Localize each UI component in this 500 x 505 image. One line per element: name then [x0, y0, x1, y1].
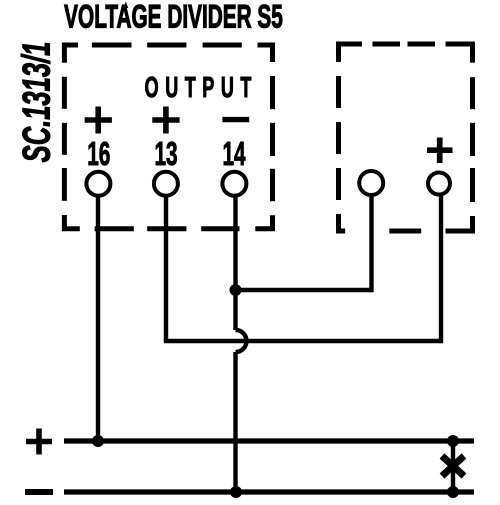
wire external terminal B down — [439, 196, 443, 343]
terminal 14 circle — [222, 172, 246, 196]
external device dashed outline — [339, 44, 473, 231]
svg-text:16: 16 — [87, 135, 110, 172]
svg-text:13: 13 — [154, 135, 177, 172]
polarity + of external device — [427, 138, 453, 164]
wire terminal 13 down — [164, 196, 168, 341]
+ bus — [64, 438, 474, 443]
wire external terminal A down — [369, 196, 373, 292]
terminal 16 circle — [86, 172, 110, 196]
junction dot 16 on + bus — [92, 435, 104, 447]
wire terminal 14 down to node — [233, 196, 237, 330]
apex mark over A of VOLTAGE — [123, 2, 128, 9]
external terminal A circle — [359, 171, 383, 195]
wire terminal 16 to + bus — [96, 196, 100, 441]
svg-text:OUTPUT: OUTPUT — [145, 72, 258, 104]
polarity + of terminal 13 — [152, 107, 179, 134]
wire 13 to external terminal B horizontal — [164, 339, 441, 343]
wire hop over 13-B wire — [236, 330, 247, 352]
terminal 13 circle — [154, 172, 178, 196]
junction dot 14 on - bus — [230, 486, 242, 498]
junction dot link on + bus — [447, 435, 459, 447]
svg-text:VOLTAGE DIVIDER S5: VOLTAGE DIVIDER S5 — [64, 0, 283, 35]
svg-text:14: 14 — [222, 135, 246, 172]
- bus — [64, 489, 474, 494]
terminal block S5 dashed outline — [64, 45, 272, 229]
X mark on removable link — [442, 456, 464, 476]
label + of + bus — [26, 429, 52, 455]
removable link between buses — [451, 441, 455, 492]
junction dot node 14 branch — [230, 284, 242, 296]
external terminal B circle — [428, 173, 450, 195]
polarity - of terminal 14 — [222, 117, 249, 122]
polarity + of terminal 16 — [85, 107, 112, 134]
label - of - bus — [25, 489, 53, 495]
wire node to external terminal A horizontal — [236, 288, 372, 292]
svg-text:SC.1313/1: SC.1313/1 — [14, 42, 58, 163]
wire terminal 14 to - bus — [233, 352, 237, 492]
junction dot link on - bus — [447, 486, 459, 498]
